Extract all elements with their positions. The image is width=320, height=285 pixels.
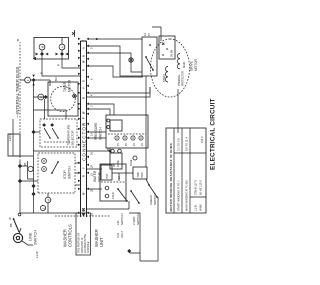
svg-text:P1: P1 — [118, 142, 120, 146]
svg-text:B: B — [40, 72, 44, 74]
svg-text:L1-B: L1-B — [194, 205, 198, 211]
svg-text:STOP: STOP — [63, 170, 67, 179]
wire contacts row — [47, 203, 49, 213]
svg-text:2A: 2A — [90, 165, 94, 168]
svg-text:6: 6 — [90, 78, 94, 80]
wire selector drop from y33 — [34, 131, 41, 133]
wire T4 to strip — [61, 50, 63, 54]
wire protector to motor row — [145, 76, 147, 167]
svg-text:W: W — [8, 217, 12, 220]
svg-text:B: B — [83, 97, 86, 99]
switch check blade — [149, 185, 157, 197]
svg-text:MAIN: MAIN — [183, 62, 186, 68]
svg-text:2: 2 — [90, 105, 94, 107]
svg-text:1B: 1B — [23, 163, 27, 166]
wire lid switch riser — [87, 208, 129, 210]
pressure dashed internal — [108, 133, 146, 135]
valve sub box — [101, 165, 112, 180]
wiper arrows T4 — [56, 53, 59, 56]
wire L2 drop — [13, 155, 34, 157]
wire x239 drop — [87, 46, 142, 76]
switch line switch blade — [14, 219, 20, 232]
contact small left a — [40, 205, 45, 210]
svg-text:SELECTOR: SELECTOR — [71, 130, 75, 145]
svg-text:115 V: 115 V — [200, 136, 204, 143]
svg-text:M: M — [40, 45, 44, 48]
svg-text:SWITCH: SWITCH — [153, 194, 157, 205]
svg-text:R: R — [57, 64, 61, 66]
svg-text:CIRCUITRY IS: CIRCUITRY IS — [82, 237, 84, 253]
selector diamonds — [42, 123, 46, 127]
drive motor M2 dashed circle — [151, 39, 190, 97]
svg-text:9.6 TO 11.4: 9.6 TO 11.4 — [185, 137, 189, 151]
junction diamond y33 c — [32, 130, 36, 134]
wire T2 to selector — [44, 99, 46, 119]
terminal timer motor — [73, 94, 77, 98]
svg-text:E: E — [41, 207, 45, 209]
svg-text:P: P — [83, 117, 86, 119]
table row line 2 — [181, 128, 183, 213]
wire T3 to strip — [41, 50, 43, 54]
svg-text:TIMER: TIMER — [63, 81, 67, 92]
wire x134 drop — [34, 150, 81, 152]
wire main row y33 — [33, 80, 35, 213]
connector pin labels bottom — [90, 47, 94, 216]
plug P1 — [13, 233, 22, 242]
svg-text:UNIT: UNIT — [99, 237, 104, 247]
svg-text:Y: Y — [83, 167, 86, 169]
wire T4 stub — [61, 38, 63, 45]
svg-text:BK: BK — [9, 223, 13, 227]
arrow into timer box top — [33, 57, 36, 60]
connector right end arrow symbol — [74, 30, 76, 37]
table row line 3 — [189, 128, 191, 213]
svg-text:PRESSURE: PRESSURE — [94, 122, 98, 140]
motor start switch blade — [146, 57, 153, 70]
wire L2 neutral line — [12, 119, 14, 156]
svg-text:3-16: 3-16 — [117, 232, 120, 238]
stop switch dashed box — [38, 153, 75, 193]
svg-text:A: A — [83, 47, 86, 49]
wire right feeds to pressure box — [87, 109, 110, 115]
svg-text:BU: BU — [54, 77, 58, 81]
svg-text:MAIN WINDING R TO BU: MAIN WINDING R TO BU — [185, 180, 189, 211]
timer motor M1 dashed circle — [51, 87, 76, 112]
svg-text:CONTROLS: CONTROLS — [68, 224, 73, 247]
connector pin arrows bottom — [87, 38, 90, 214]
svg-text:M: M — [46, 199, 50, 201]
wiper arrows T3 — [36, 53, 39, 56]
pressure switch box — [106, 115, 148, 148]
svg-text:W-BK: W-BK — [199, 204, 203, 211]
table column divider 2 — [190, 196, 206, 198]
wire pressure feeds from strip — [87, 137, 106, 139]
svg-text:LINE: LINE — [29, 232, 33, 241]
connector pin arrows top — [78, 38, 81, 214]
console note bracket — [76, 213, 91, 255]
svg-text:TMB: TMB — [137, 172, 140, 177]
fuse terminal — [133, 156, 137, 160]
wire stop box drops — [75, 184, 80, 186]
svg-text:5: 5 — [90, 47, 94, 49]
svg-text:60 HZ 115 V: 60 HZ 115 V — [199, 180, 203, 195]
svg-text:1A: 1A — [144, 33, 147, 36]
svg-text:W: W — [83, 60, 86, 63]
timer box right — [34, 38, 69, 60]
svg-text:1A: 1A — [118, 176, 121, 179]
wire motor left stub — [87, 87, 150, 97]
svg-text:P2: P2 — [126, 142, 128, 146]
svg-text:SWITCH: SWITCH — [136, 214, 140, 225]
junction diamond bottom left — [127, 249, 131, 253]
wire x192 drop — [87, 87, 150, 93]
svg-text:W: W — [83, 192, 86, 195]
junction diamond T4 — [60, 52, 64, 56]
svg-text:OR LT: OR LT — [121, 230, 124, 238]
wire bottom left y130 — [129, 213, 140, 253]
selector blades — [44, 128, 50, 138]
motor terminal box — [142, 37, 157, 76]
svg-text:PRO: PRO — [141, 172, 144, 177]
terminal line switch — [18, 213, 21, 216]
svg-text:CONSOLE: CONSOLE — [88, 241, 90, 253]
svg-text:B: B — [83, 210, 86, 212]
motor main winding — [177, 53, 180, 69]
wire strip end drop with arrowhead — [87, 38, 142, 40]
svg-text:SWITCH: SWITCH — [68, 166, 72, 179]
section divider dashed — [55, 215, 110, 217]
wire lid row — [128, 201, 130, 209]
terminal block box L2 — [8, 134, 20, 156]
wire motor left lead — [177, 89, 179, 133]
pressure inner box — [110, 120, 122, 131]
junction diamond y33 b — [32, 184, 36, 188]
stop switch blade — [52, 162, 58, 173]
junction diamond on buss 1 — [18, 179, 22, 183]
pressure feed diamond — [87, 150, 110, 152]
svg-text:CONNECTOR: CONNECTOR — [82, 122, 87, 161]
wire left vertical to connector — [20, 212, 80, 214]
svg-text:K: K — [90, 94, 94, 96]
fuse box — [110, 153, 122, 169]
svg-text:COLD: COLD — [112, 192, 115, 199]
timer contact T3 — [39, 44, 45, 50]
timer contact T1 — [20, 79, 25, 81]
svg-text:PROTECTOR: PROTECTOR — [182, 71, 185, 86]
junction diamond T3 — [40, 52, 44, 56]
svg-text:START: START — [163, 74, 166, 82]
svg-text:2TB-B 117 V: 2TB-B 117 V — [194, 180, 198, 195]
selector dashed box — [40, 119, 77, 147]
contact small left b — [45, 197, 51, 203]
svg-text:FUSE: FUSE — [130, 159, 133, 166]
svg-text:F: F — [26, 79, 30, 81]
svg-text:LOCATED IN THE: LOCATED IN THE — [84, 234, 87, 253]
svg-text:V: V — [83, 87, 86, 89]
wire line switch to buss — [19, 161, 21, 214]
svg-text:B: B — [83, 55, 86, 57]
svg-text:WATER: WATER — [93, 170, 97, 182]
valve coils — [105, 194, 109, 198]
wire bottom left y158 — [140, 197, 158, 261]
svg-text:1M 5M: 1M 5M — [172, 50, 174, 57]
switch spin blade — [131, 191, 139, 203]
svg-text:3.1 TO 3.9: 3.1 TO 3.9 — [177, 138, 181, 151]
selector dashes — [44, 141, 70, 143]
connector strip line bottom — [86, 41, 88, 217]
svg-text:MOTOR: MOTOR — [68, 79, 72, 92]
svg-text:—INTERNAL TIMER BUSS: —INTERNAL TIMER BUSS — [15, 66, 20, 118]
timer contact T4 — [59, 44, 65, 50]
timer motor box — [48, 82, 78, 116]
wire x232 drop — [87, 53, 142, 72]
svg-text:1A: 1A — [90, 133, 94, 136]
svg-text:C: C — [39, 96, 43, 98]
svg-text:B: B — [16, 39, 20, 41]
svg-text:START WINDING R TO Y: START WINDING R TO Y — [177, 180, 181, 211]
motor switch box — [159, 36, 175, 59]
svg-text:A: A — [60, 46, 64, 48]
wire solenoid feeds — [87, 188, 102, 190]
pressure top contacts — [107, 126, 110, 129]
svg-text:P4: P4 — [142, 142, 144, 146]
connector pin letters inside — [83, 47, 86, 212]
motor protector box — [133, 167, 147, 179]
stop switch contacts — [42, 167, 47, 172]
pressure terminals — [115, 136, 119, 140]
wire drop from buss x119 — [20, 165, 28, 167]
svg-text:2B: 2B — [113, 164, 116, 167]
junction diamond y33 a — [32, 192, 36, 196]
svg-text:ELECTRICAL CIRCUIT: ELECTRICAL CIRCUIT — [210, 98, 217, 170]
table column divider — [174, 152, 206, 154]
svg-text:HOT: HOT — [106, 173, 109, 179]
wire check to protector — [146, 179, 149, 185]
connector strip line top — [80, 41, 82, 217]
wire plug neutral drop — [22, 241, 33, 245]
connector left end arrow — [82, 213, 86, 217]
svg-text:L2(N): L2(N) — [8, 133, 12, 141]
svg-text:R: R — [83, 69, 86, 71]
wire T1 into timer box — [49, 80, 51, 86]
svg-text:5Y: 5Y — [148, 33, 151, 36]
svg-text:MOTOR WINDING RESISTANCE IN OH: MOTOR WINDING RESISTANCE IN OHMS — [169, 143, 173, 212]
svg-text:L1-W: L1-W — [35, 251, 39, 258]
svg-text:SWITCH: SWITCH — [34, 230, 38, 245]
svg-text:W: W — [83, 111, 86, 114]
wire timer buss dashed — [19, 42, 21, 161]
svg-text:DRIVE: DRIVE — [190, 61, 194, 71]
wiper arrows T1 — [32, 83, 34, 86]
svg-text:MOTOR: MOTOR — [194, 58, 198, 71]
svg-text:FUSE: FUSE — [117, 160, 120, 167]
switch lid blade — [118, 189, 127, 201]
wire x208 drop — [87, 66, 143, 77]
motor start winding — [165, 66, 168, 82]
svg-text:P3: P3 — [134, 142, 136, 146]
svg-text:26: 26 — [90, 152, 94, 155]
wire selector right feed — [34, 110, 67, 119]
terminal start cap — [129, 58, 133, 62]
water valve box — [100, 164, 126, 201]
timer contact T2 — [34, 96, 49, 98]
resistance table — [166, 128, 206, 213]
wire plug stub — [19, 228, 21, 234]
svg-text:THIS PORTION OF: THIS PORTION OF — [79, 232, 81, 253]
wire drop from buss x104 — [20, 180, 38, 182]
svg-text:SWITCH: SWITCH — [120, 214, 124, 225]
junction diamond on buss 2 — [18, 164, 22, 168]
wire motor right lead — [160, 27, 162, 41]
svg-text:R: R — [83, 175, 86, 177]
table header line — [173, 128, 175, 213]
svg-text:G: G — [83, 80, 86, 82]
contact 1B row — [27, 161, 29, 179]
